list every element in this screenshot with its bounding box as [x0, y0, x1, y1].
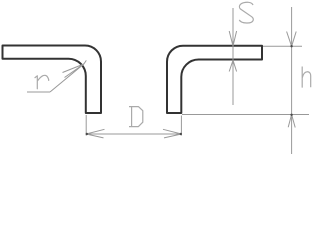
r leader line	[50, 60, 86, 92]
dimension D left arrow	[86, 129, 104, 138]
left bent profile outline	[3, 46, 102, 114]
dimension D right arrow	[163, 129, 181, 138]
dimension S line	[232, 8, 234, 105]
r leader arrowhead	[63, 64, 84, 78]
dimension h bottom extension line	[182, 114, 309, 116]
dimension S top arrow	[229, 31, 236, 46]
dimension D line	[86, 133, 181, 135]
dimension h bottom arrow	[288, 115, 295, 128]
dimension D left arrow tip dot	[86, 133, 88, 135]
label D	[129, 107, 143, 127]
dimension h line	[291, 7, 293, 154]
dimension D extension line left	[85, 115, 87, 136]
dimension h top arrow tip dot	[290, 45, 292, 47]
r underline	[27, 91, 50, 93]
dimension D extension line right	[180, 116, 182, 136]
right bent profile outline	[167, 46, 262, 113]
label S	[239, 2, 253, 23]
dimension h top arrow	[287, 32, 297, 47]
label h	[302, 67, 311, 88]
label r	[35, 75, 49, 88]
dimension S bottom arrow	[229, 60, 236, 71]
dimension D right arrow tip dot	[180, 133, 182, 135]
dimension h top extension line	[263, 45, 302, 47]
dimension h bottom arrow tip dot	[290, 114, 292, 116]
